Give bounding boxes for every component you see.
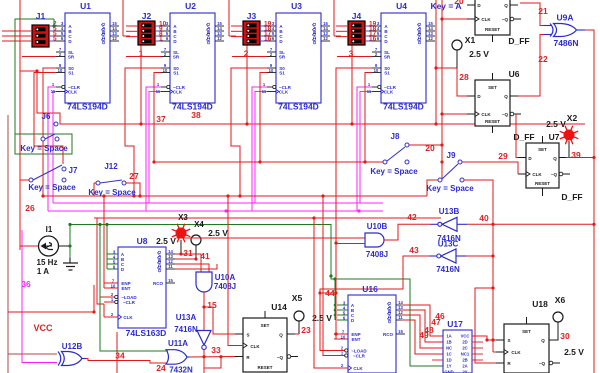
svg-text:39: 39: [571, 150, 581, 160]
svg-text:Key = Space: Key = Space: [370, 167, 418, 176]
svg-text:22: 22: [538, 54, 548, 64]
svg-text:QD: QD: [387, 317, 392, 325]
svg-text:QD: QD: [206, 38, 211, 46]
svg-text:10: 10: [58, 68, 63, 73]
svg-text:11: 11: [262, 89, 267, 94]
svg-text:CLK: CLK: [511, 350, 521, 355]
wire net 29 to U7 CLK: [462, 162, 518, 174]
wire magenta ~CLR drop: [146, 87, 161, 211]
svg-text:15: 15: [168, 278, 173, 283]
svg-text:1: 1: [139, 49, 144, 59]
svg-text:~CLR: ~CLR: [123, 300, 136, 305]
wire U14.Q to X5 net 23: [295, 333, 299, 335]
wire left maroon rail: [7, 115, 9, 373]
svg-text:SET: SET: [538, 147, 547, 152]
wire J9 right down rail: [464, 180, 493, 352]
wire magenta CLK drop: [255, 92, 267, 204]
wire U13C output net 43: [320, 256, 430, 351]
svg-text:16: 16: [369, 36, 377, 43]
wire DIP feed from top: [228, 0, 230, 36]
svg-text:38: 38: [191, 110, 201, 120]
svg-text:12: 12: [428, 36, 433, 41]
svg-text:2B: 2B: [462, 358, 467, 363]
svg-text:X2: X2: [567, 113, 578, 123]
wire U5 CLK feed: [442, 18, 467, 20]
wire magenta ~CLR drop: [48, 87, 56, 211]
svg-text:2.5 V: 2.5 V: [208, 228, 228, 238]
svg-text:SR: SR: [68, 55, 75, 60]
svg-text:U14: U14: [271, 302, 287, 312]
svg-text:49: 49: [419, 330, 429, 340]
wire red top bus nets 37/38: [20, 71, 585, 124]
svg-text:CLK: CLK: [123, 315, 133, 320]
wire U18.Q to X6 net 30: [554, 322, 558, 340]
svg-text:CLK: CLK: [68, 90, 78, 95]
probe X4: [191, 220, 228, 259]
74LS194D U2: [156, 1, 224, 112]
wire U13A out: [203, 350, 205, 373]
svg-text:CLK: CLK: [481, 112, 491, 117]
svg-text:X4: X4: [194, 220, 204, 229]
svg-text:J3: J3: [247, 11, 257, 21]
svg-text:Key = Space: Key = Space: [28, 183, 76, 192]
svg-text:NC: NC: [446, 346, 452, 351]
svg-text:U10A: U10A: [215, 273, 236, 282]
inverter U13A 7416N (down): [174, 313, 211, 349]
svg-text:X3: X3: [178, 213, 188, 222]
svg-text:74LS163D: 74LS163D: [126, 328, 167, 338]
wire red S0 run: [231, 68, 267, 196]
svg-text:12: 12: [217, 36, 222, 41]
svg-text:U13C: U13C: [438, 240, 459, 249]
wire U17 1B/NC/1C/1D feeds stubs: [432, 359, 443, 361]
wire U6 CLK feed: [442, 113, 467, 115]
svg-text:2.5 V: 2.5 V: [312, 313, 332, 323]
svg-text:S1: S1: [279, 71, 285, 76]
svg-text:QD: QD: [157, 266, 162, 274]
wire U16 Q to U17 nets 46-49: [401, 305, 443, 336]
svg-text:20: 20: [425, 143, 435, 153]
switch J7: [29, 178, 33, 182]
svg-text:7486N: 7486N: [553, 38, 578, 48]
svg-text:21: 21: [538, 6, 548, 16]
wire red S1 elbow: [34, 73, 63, 165]
green loop around Key=Space J6: [15, 134, 72, 154]
svg-text:J2: J2: [142, 11, 152, 21]
svg-text:J8: J8: [391, 132, 400, 141]
wire green to ground: [69, 225, 71, 259]
svg-text:10: 10: [163, 68, 168, 73]
wire green drop to U1.A: [53, 19, 55, 26]
AND gate U10A 7408J (down): [196, 272, 236, 292]
wire red drop x=117: [116, 332, 118, 373]
svg-text:Key = Space: Key = Space: [426, 184, 474, 193]
svg-text:11: 11: [51, 89, 56, 94]
svg-text:10: 10: [374, 68, 379, 73]
svg-text:~Q: ~Q: [277, 355, 284, 360]
svg-text:SR: SR: [173, 55, 180, 60]
svg-text:~CLR: ~CLR: [353, 354, 366, 359]
svg-text:29: 29: [498, 151, 508, 161]
svg-text:Q: Q: [541, 338, 545, 343]
svg-text:7408J: 7408J: [366, 250, 388, 259]
svg-text:Key = Space: Key = Space: [20, 144, 68, 153]
DIP switch J3: [231, 11, 276, 59]
svg-text:Key = Space: Key = Space: [88, 188, 136, 197]
wire U8 outputs to AND U10A: [175, 254, 201, 272]
svg-text:CLK: CLK: [250, 344, 260, 349]
wire switch riser to bus: [140, 45, 142, 124]
wire green feed U8 ABCD: [106, 225, 108, 270]
svg-text:U1: U1: [80, 1, 91, 11]
svg-text:D_FF: D_FF: [561, 192, 582, 202]
probe X3 (lit): [172, 213, 191, 254]
switch J6 body: [41, 137, 45, 141]
wire green U16 ABCD feed: [334, 279, 336, 320]
svg-text:28: 28: [459, 72, 469, 82]
svg-text:12: 12: [323, 36, 328, 41]
74LS194D U3: [262, 1, 330, 112]
switch J6 terminal on bus: [54, 122, 58, 126]
wire net 20 vertical: [441, 0, 443, 178]
svg-text:RCO: RCO: [383, 332, 393, 337]
svg-text:S1: S1: [384, 71, 390, 76]
wire red S1 elbow: [260, 73, 267, 163]
svg-text:10: 10: [269, 68, 274, 73]
svg-text:24: 24: [156, 363, 166, 373]
svg-text:2.5 V: 2.5 V: [546, 119, 566, 129]
74LS194D U4: [367, 1, 435, 112]
svg-text:RESET: RESET: [257, 365, 272, 370]
svg-text:U8: U8: [137, 236, 148, 246]
wire DIP feed from top: [333, 0, 335, 36]
svg-text:26: 26: [25, 203, 35, 213]
svg-text:5: 5: [53, 36, 57, 43]
svg-text:ENT: ENT: [352, 337, 361, 342]
svg-text:U13A: U13A: [176, 313, 197, 322]
svg-text:11: 11: [367, 89, 372, 94]
svg-text:J1: J1: [36, 11, 46, 21]
svg-text:33: 33: [211, 345, 221, 355]
svg-text:J9: J9: [447, 151, 456, 160]
svg-text:36: 36: [21, 279, 31, 289]
svg-text:Q: Q: [504, 3, 508, 8]
DIP switch J2: [126, 11, 170, 59]
svg-text:ENT: ENT: [122, 286, 131, 291]
svg-text:SR: SR: [384, 55, 391, 60]
svg-text:RESET: RESET: [485, 27, 500, 32]
svg-text:1: 1: [159, 36, 163, 43]
svg-text:U9A: U9A: [556, 13, 573, 23]
wire net 20 feed line y=162: [154, 161, 383, 163]
wire red SR run: [337, 56, 372, 58]
svg-text:7416N: 7416N: [436, 265, 460, 274]
svg-text:QD: QD: [417, 38, 422, 46]
svg-text:VCC: VCC: [461, 334, 470, 339]
wire U10A out: [203, 292, 205, 330]
svg-text:CLK: CLK: [532, 172, 542, 177]
svg-text:QD: QD: [101, 38, 106, 46]
svg-text:11: 11: [156, 89, 161, 94]
svg-text:S1: S1: [173, 71, 179, 76]
DIP switch J1: [32, 11, 65, 47]
svg-text:X6: X6: [555, 295, 566, 305]
wire red SR run: [126, 56, 161, 58]
wire red bus y=196: [43, 195, 427, 197]
D flip-flop U18: [496, 317, 560, 373]
wire I1 left: [20, 245, 38, 247]
svg-text:U4: U4: [396, 1, 407, 11]
wire magenta CLK drop: [53, 92, 56, 204]
svg-text:U17: U17: [447, 319, 463, 329]
wire U12B top input: [8, 353, 57, 355]
svg-text:~Q: ~Q: [539, 361, 546, 366]
wire U14 CLK feed: [228, 196, 243, 346]
svg-text:1C: 1C: [446, 352, 451, 357]
wire feeds U16 CLR: [323, 196, 334, 356]
svg-text:12: 12: [112, 36, 117, 41]
svg-text:74LS194D: 74LS194D: [383, 102, 424, 112]
svg-text:J7: J7: [69, 166, 78, 175]
wire switch riser to bus: [246, 45, 248, 124]
svg-text:41: 41: [200, 251, 210, 261]
wire switch riser to bus: [351, 45, 353, 124]
svg-text:U3: U3: [291, 1, 302, 11]
wire net 22 U6.Q to XOR: [518, 35, 544, 97]
svg-text:D_FF: D_FF: [508, 36, 529, 46]
wire J9 left feed from bus: [427, 180, 438, 196]
svg-text:27: 27: [129, 171, 139, 181]
svg-text:~Q: ~Q: [551, 172, 558, 177]
svg-text:2C: 2C: [462, 346, 467, 351]
svg-text:~Q: ~Q: [502, 112, 509, 117]
probe X5: [292, 293, 304, 334]
svg-text:U7: U7: [549, 132, 560, 142]
ground: [63, 258, 78, 270]
svg-text:D_FF: D_FF: [513, 132, 534, 142]
IC U17: [443, 319, 483, 373]
svg-text:2.5 V: 2.5 V: [156, 236, 176, 246]
svg-text:CLK: CLK: [173, 90, 183, 95]
svg-text:15: 15: [207, 300, 217, 310]
wire U18 R feed detour: [475, 288, 496, 363]
wire left green rail: [15, 19, 54, 134]
wire U10B lower input: [336, 243, 365, 245]
wire U6.~Q to U7.D: [516, 114, 518, 158]
svg-text:SET: SET: [488, 85, 497, 90]
wire net 28 to U6.D: [436, 68, 467, 96]
svg-text:37: 37: [156, 114, 166, 124]
wire magenta bus y=203: [53, 202, 383, 204]
inverter U13B 7416N (mirrored): [431, 207, 468, 243]
svg-text:2D: 2D: [462, 340, 467, 345]
svg-text:U11A: U11A: [168, 339, 188, 348]
svg-text:2Y: 2Y: [462, 370, 467, 373]
svg-text:~Q: ~Q: [502, 17, 509, 22]
svg-text:16: 16: [264, 36, 272, 43]
wire feeds U16 ENP/ENT: [334, 196, 336, 339]
svg-text:2.5 V: 2.5 V: [469, 49, 489, 59]
svg-text:X5: X5: [292, 293, 303, 303]
svg-text:U16: U16: [362, 284, 378, 294]
svg-text:U12B: U12B: [62, 342, 83, 351]
svg-text:Q: Q: [279, 333, 283, 338]
wire magenta bus y=211: [48, 210, 383, 212]
probe X6: [553, 295, 565, 322]
svg-text:15 Hz: 15 Hz: [37, 258, 58, 267]
wire net 21 U5.Q to XOR: [520, 3, 544, 26]
svg-text:1Y: 1Y: [446, 364, 451, 369]
wire red S1 elbow: [154, 73, 161, 163]
D flip-flop U7: [518, 136, 570, 196]
svg-text:10: 10: [341, 335, 346, 340]
svg-text:U6: U6: [509, 69, 520, 79]
svg-text:20: 20: [454, 0, 464, 6]
inverter U13C 7416N (mirrored): [430, 240, 467, 275]
wire red S0 run: [336, 68, 372, 196]
svg-text:43: 43: [409, 245, 419, 255]
wire U18 CLK feed: [493, 351, 496, 353]
svg-text:34: 34: [115, 351, 125, 361]
current source I1: [37, 225, 70, 276]
wire green to U11A: [100, 225, 168, 352]
svg-text:RESET: RESET: [485, 119, 500, 124]
svg-text:Q: Q: [553, 156, 557, 161]
wire red SR run: [232, 56, 267, 58]
svg-text:31: 31: [183, 248, 193, 258]
wire red horizontal y=312: [8, 311, 94, 313]
svg-text:10: 10: [111, 284, 116, 289]
74LS194D U1: [51, 1, 119, 112]
XOR gate U9A 7486N: [544, 13, 586, 49]
wire net 15 to U14.S: [204, 307, 235, 334]
svg-text:15: 15: [398, 329, 403, 334]
svg-text:SET: SET: [522, 329, 531, 334]
svg-text:11: 11: [398, 315, 403, 320]
svg-text:SR: SR: [279, 55, 286, 60]
XOR gate U12B: [58, 342, 86, 366]
svg-text:U10B: U10B: [367, 222, 388, 231]
svg-text:QD: QD: [312, 38, 317, 46]
svg-text:74LS194D: 74LS194D: [67, 102, 108, 112]
svg-text:CLK: CLK: [384, 90, 394, 95]
wire red S0 run: [125, 68, 161, 196]
wire feeds U8 ENP/ENT: [103, 196, 105, 288]
wire U11A out to U14.R net 33: [190, 356, 236, 359]
wire 33 to 24 loop: [204, 357, 221, 369]
svg-text:2.5 V: 2.5 V: [564, 347, 584, 357]
svg-text:GND: GND: [444, 370, 453, 373]
probe X1: [452, 40, 462, 50]
wire 36 magenta rail: [22, 230, 57, 363]
svg-text:VCC: VCC: [33, 323, 53, 333]
svg-text:1B: 1B: [446, 340, 451, 345]
svg-text:I1: I1: [46, 225, 53, 234]
svg-text:1A: 1A: [446, 334, 451, 339]
wire J8 to net 20 vertical: [409, 144, 442, 146]
svg-text:S1: S1: [68, 71, 74, 76]
svg-text:X1: X1: [465, 35, 476, 45]
svg-text:1D: 1D: [446, 358, 451, 363]
wire U9A output to right rail: [585, 30, 594, 373]
svg-text:J4: J4: [352, 11, 362, 21]
svg-text:RCO: RCO: [153, 281, 163, 286]
svg-text:SET: SET: [261, 323, 270, 328]
counter U8: [104, 236, 175, 338]
wire left red rail: [19, 0, 21, 250]
svg-text:40: 40: [479, 213, 489, 223]
svg-text:74LS194D: 74LS194D: [278, 102, 319, 112]
svg-text:11: 11: [168, 264, 173, 269]
D flip-flop U6: [467, 73, 521, 133]
svg-text:U18: U18: [532, 299, 548, 309]
wire U10B out to U13B net 42: [384, 224, 431, 240]
wire magenta ~CLR drop: [357, 87, 372, 211]
wire net 31 to U10B input: [177, 236, 365, 238]
svg-text:42: 42: [407, 212, 417, 222]
wire feeds U8 LOAD/CLR/CLK: [97, 218, 104, 304]
svg-text:23: 23: [301, 325, 311, 335]
probe X2 (lit): [546, 113, 578, 158]
wire red S1 elbow: [365, 73, 372, 163]
wire magenta CLK drop: [360, 92, 372, 204]
wire U13C input from rail: [466, 255, 493, 257]
svg-text:3: 3: [349, 49, 354, 59]
svg-text:1 A: 1 A: [37, 267, 49, 276]
svg-text:2A: 2A: [462, 364, 467, 369]
svg-text:S: S: [246, 333, 249, 338]
AND gate U10B 7408J: [365, 222, 388, 259]
svg-text:CLK: CLK: [481, 17, 491, 22]
svg-text:7408J: 7408J: [214, 282, 236, 291]
svg-text:RESET: RESET: [535, 181, 550, 186]
wire DIP feed from top: [122, 0, 124, 36]
wire U17 VCC to U18.S: [472, 336, 504, 340]
wire feeds U16 CLK: [314, 218, 334, 368]
svg-text:NC1: NC1: [461, 352, 470, 357]
wire green bus A y=224: [70, 225, 443, 367]
D flip-flop U5 (top, cut off): [467, 0, 521, 42]
DIP switch J4: [336, 11, 381, 59]
svg-text:2: 2: [244, 49, 249, 59]
wire red SR run: [22, 56, 56, 58]
wire riser x=436: [435, 0, 437, 124]
D flip-flop U14: [235, 311, 298, 372]
wire net 27 elbow: [126, 183, 140, 196]
OR gate U11A 7432N: [166, 339, 193, 373]
wire red S0 run: [43, 68, 56, 196]
counter U16: [334, 284, 405, 373]
svg-text:CLK: CLK: [279, 90, 289, 95]
wire red bus y=218: [94, 217, 441, 219]
wire U7.Q net 39 to right rail: [566, 157, 594, 159]
wire magenta ~CLR drop: [252, 87, 267, 211]
svg-text:U13B: U13B: [439, 207, 460, 216]
wire U12B output net 34: [86, 359, 166, 364]
wire U13B input net 40: [467, 223, 594, 225]
svg-text:CLK: CLK: [353, 366, 363, 371]
svg-text:30: 30: [560, 331, 570, 341]
svg-text:7416N: 7416N: [174, 325, 198, 334]
wire magenta CLK drop: [149, 92, 161, 204]
svg-text:J12: J12: [104, 162, 118, 171]
svg-text:J6: J6: [42, 112, 51, 121]
svg-text:U2: U2: [185, 1, 196, 11]
wire J7 left: [20, 179, 29, 181]
wire J1 feed stubs: [2, 30, 32, 32]
svg-text:S: S: [507, 338, 510, 343]
svg-text:Q: Q: [504, 94, 508, 99]
